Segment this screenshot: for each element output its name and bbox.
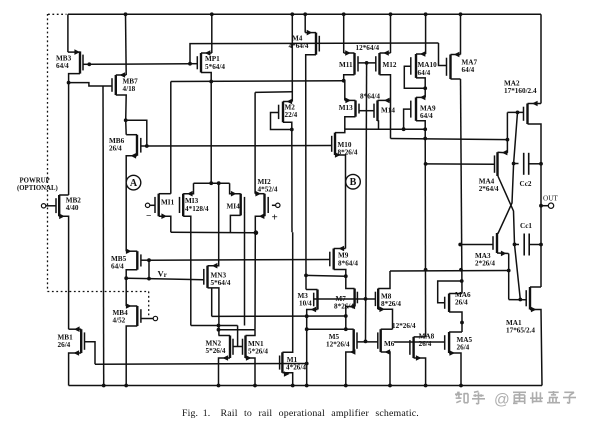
wire M13 source lead <box>345 117 356 129</box>
wire MA7 source lead <box>451 78 461 80</box>
wire M13/M14 gate wire <box>359 110 374 112</box>
junction bus316 end <box>344 314 348 318</box>
transistor MI3 <box>180 194 184 217</box>
junction MN-gates tie <box>217 324 221 328</box>
arrow MI2 drain <box>255 191 261 197</box>
arrow MA9 drain <box>420 95 426 101</box>
transistor MN3 <box>204 266 208 288</box>
wire MB3 drain riser <box>67 14 69 52</box>
junction MB3 source node <box>67 81 71 85</box>
wire M12 drain lead <box>380 52 391 54</box>
junction S2 Cc1 <box>513 243 517 247</box>
svg-text:64/4: 64/4 <box>111 263 124 271</box>
arrow MB1 drain <box>74 326 80 332</box>
arrow MI1 source <box>161 213 167 219</box>
junction bus364 end <box>305 362 309 366</box>
wire M6 drain lead <box>381 328 393 330</box>
wire M7 source lead <box>346 307 355 330</box>
junction bus129 MA9-gate <box>402 127 406 131</box>
wire bus y325 <box>191 325 238 327</box>
svg-text:4/52: 4/52 <box>113 317 126 325</box>
wire MB2 source lead <box>59 216 68 329</box>
terminal MB2 gate (POWRUP) <box>41 204 45 208</box>
wire M4 drain riser <box>304 16 306 33</box>
svg-text:M9: M9 <box>338 252 349 260</box>
wire MB1 source lead <box>69 353 82 386</box>
wire MI4 source lead <box>230 215 240 232</box>
wire MA2 gate lead <box>507 111 523 113</box>
arrow MN1 source <box>246 355 252 361</box>
transistor MA7 <box>447 55 451 80</box>
svg-text:@: @ <box>494 392 510 409</box>
wire tail rail <box>171 231 256 233</box>
junction OUT <box>539 204 543 208</box>
wire MA4 gate lead: none (bus164) <box>494 163 496 165</box>
transistor MB3 <box>80 51 83 73</box>
svg-text:4/40: 4/40 <box>66 204 79 212</box>
wire MN3 source stub to bus316 <box>211 288 213 317</box>
wire MI2-MN1 link <box>254 232 256 329</box>
arrow M3 source <box>311 307 317 313</box>
transistor MB1 <box>81 329 84 353</box>
wire top supply rail <box>68 13 541 15</box>
junction M3/M5 drain tie <box>305 327 309 331</box>
svg-text:8*64/4: 8*64/4 <box>360 93 380 101</box>
transistor MB7 <box>112 75 116 95</box>
wire POWRUP dashed vertical <box>47 14 49 292</box>
svg-text:M12: M12 <box>383 61 397 69</box>
wire M9 source lead <box>334 270 346 277</box>
wire bus y329 MN1-drain <box>219 329 256 331</box>
junction rail MA7 <box>459 12 463 16</box>
arrow M6 source <box>385 349 391 355</box>
wire MI2 drain lead <box>255 193 264 195</box>
junction MA6-MA5 tie <box>460 321 464 325</box>
junction MA10 gate tie <box>423 86 427 90</box>
transistor MI4 <box>241 194 245 216</box>
arrow MA8 source <box>416 355 422 361</box>
wire MB6 drain to channel <box>125 120 128 134</box>
arrow MA5 source <box>449 350 455 356</box>
junction S1 Cc2 <box>512 162 516 166</box>
junction M11 source node <box>342 79 346 83</box>
junction bus270 MA6 <box>459 268 463 272</box>
wire MA spine x425 <box>424 129 426 337</box>
wire M12 drain riser <box>390 14 392 53</box>
junction M5 drain node <box>344 327 348 331</box>
wire bus y164 MA4 gate <box>426 163 495 165</box>
wire MP1 drain riser <box>211 14 213 53</box>
wire MA8 drain lead <box>414 336 426 338</box>
wire Cc1 right <box>529 244 541 246</box>
wire MA3 gate lead <box>460 244 493 246</box>
wire MI2 gate lead <box>272 204 276 206</box>
svg-text:12*26/4: 12*26/4 <box>392 322 416 330</box>
svg-text:17*160/2.4: 17*160/2.4 <box>504 87 537 95</box>
svg-text:M13: M13 <box>339 104 353 112</box>
wire MA1 source lead <box>530 310 542 386</box>
arrow M14 drain <box>384 98 390 104</box>
wire MB4 drain lead <box>126 305 137 307</box>
junction M11/M12 gate node <box>365 61 369 65</box>
junction tail MI2 <box>254 230 259 235</box>
wire MB1 drain lead <box>69 328 82 330</box>
junction rail M2 <box>290 12 294 16</box>
wire M4-gate bus with left drop <box>190 43 439 64</box>
wire MB4 gate lead <box>141 318 153 320</box>
wire OUT stub <box>541 205 549 207</box>
svg-text:+: + <box>272 212 278 224</box>
wire Vr node to MB4 drain <box>125 278 127 306</box>
wire MN2/MN1 gate wire <box>233 346 243 348</box>
wire MA1 drain lead <box>530 286 541 288</box>
arrow MB3 source (top) <box>74 49 80 55</box>
arrow MA2 drain <box>532 101 538 107</box>
wire MB5 gate to Vr wire <box>148 260 150 278</box>
wire MI1 gate lead <box>150 204 155 206</box>
junction top rail x125 <box>124 12 128 16</box>
svg-text:5*26/4: 5*26/4 <box>248 348 268 356</box>
wire MA9 gate drop <box>404 109 411 129</box>
wire gate bus y342 M5-M6 <box>357 341 378 343</box>
transistor M13 <box>356 100 360 116</box>
wire MP1 to pair bus <box>210 82 212 184</box>
transistor M3 <box>314 290 318 310</box>
svg-text:5*64/4: 5*64/4 <box>205 63 225 71</box>
wire M4 source lead <box>306 55 316 290</box>
wire Cc2 right <box>529 163 541 165</box>
junction pair bus MP1 <box>209 181 213 185</box>
wire MA10 source lead <box>416 78 425 98</box>
svg-text:4*26/4: 4*26/4 <box>286 364 306 372</box>
wire MA2 drain lead <box>528 103 542 105</box>
wire mirror gate spine x365 <box>366 63 367 342</box>
wire rail drop right <box>540 14 542 103</box>
wire MI1 source lead <box>159 216 171 232</box>
svg-text:POWRUP: POWRUP <box>20 177 50 184</box>
svg-text:8*64/4: 8*64/4 <box>338 260 358 268</box>
svg-text:MI1: MI1 <box>161 199 175 207</box>
wire MN2 drain lead <box>219 335 231 337</box>
wire MA7 gate feed <box>439 43 447 66</box>
arrow MB1 source <box>74 350 80 356</box>
wire MA3 source lead <box>497 252 509 255</box>
wire M11 drain riser <box>343 14 345 53</box>
wire MA5 source lead <box>449 353 461 386</box>
svg-text:A: A <box>130 178 138 189</box>
svg-text:Rail to rail operational ampli: Rail to rail operational amplifier schem… <box>221 408 419 419</box>
wire M12 source riser <box>380 75 391 139</box>
wire MI2 drain riser <box>254 92 256 193</box>
junction spine365 at M5/M6 gates <box>364 340 368 344</box>
wire MA8 source lead <box>414 358 426 386</box>
junction spine425 bus138 <box>423 137 427 141</box>
junction bus270 V3 <box>507 269 511 273</box>
wire M3 drain lead <box>306 289 318 291</box>
svg-text:4*52/4: 4*52/4 <box>258 186 278 194</box>
junction Vr node <box>124 276 128 280</box>
watermark zhihu <box>455 391 576 404</box>
wire MB3 drain lead <box>68 51 80 53</box>
wire M10-gate bus y145 <box>147 145 332 148</box>
transistor M2 <box>279 102 283 123</box>
capacitor Cc1 <box>524 234 529 256</box>
arrow M8 source <box>379 307 385 313</box>
junction rail MA5 <box>459 384 463 388</box>
junction MB5 gate node <box>147 258 151 262</box>
wire gate bus y364 (MB1/M1) <box>95 363 307 366</box>
wire MI2 drain jog to M2 riser <box>255 91 292 94</box>
transistor MB6 <box>137 135 141 156</box>
wire rail to MB7 drain <box>125 14 128 75</box>
node B <box>346 174 361 189</box>
wire M1 drain lead <box>282 232 292 352</box>
junction out Cc1 <box>539 243 543 247</box>
arrow MI2 source <box>259 213 265 219</box>
transistor M10 <box>332 133 335 155</box>
transistor M14 <box>374 100 378 121</box>
wire MA9 source lead <box>416 121 425 130</box>
arrow M1 source <box>284 371 290 377</box>
svg-text:26/4: 26/4 <box>419 340 432 348</box>
svg-text:Cc1: Cc1 <box>520 222 532 230</box>
transistor MA6 <box>445 294 449 313</box>
svg-text:M14: M14 <box>381 107 395 115</box>
wire M2 drain riser <box>291 16 293 102</box>
wire MB6 source lead <box>126 156 137 251</box>
transistor MB2 <box>56 195 59 216</box>
arrow M10 source <box>335 152 341 158</box>
transistor M1 <box>280 352 283 373</box>
transistor MB5 <box>137 251 141 270</box>
wire M2 source lead <box>283 122 292 129</box>
junction S2 MA1-gate <box>518 298 522 302</box>
wire M6 source lead <box>381 352 390 386</box>
wire MP1 gate lead <box>190 63 197 65</box>
wire MB4 source lead <box>126 326 137 386</box>
wire MA9 drain lead <box>416 96 425 98</box>
wire bus y129 cascode <box>345 128 425 130</box>
wire POWRUP dashed drop to MB4 gate <box>148 292 150 316</box>
junction spine425 bus164 <box>424 162 428 166</box>
wire MA5 drain lead <box>449 331 462 333</box>
svg-text:64/4: 64/4 <box>420 112 433 120</box>
transistor MI1 <box>155 194 159 217</box>
junction MB3 gate node <box>87 62 91 66</box>
transistor MA10 <box>411 54 416 78</box>
wire bus y81 MI1-M11 <box>171 80 344 83</box>
transistor MA2 <box>524 104 528 125</box>
transistor MA8 <box>410 337 414 358</box>
wire M9 drain lead <box>334 248 346 250</box>
arrow MA1 source <box>531 307 537 313</box>
wire Vr bus <box>126 278 204 279</box>
wire MP1 source lead <box>201 73 211 82</box>
terminal minus input <box>145 203 149 207</box>
arrow MB7 drain <box>120 72 126 78</box>
junction MA6 gate tie <box>460 279 464 283</box>
wire bottom supply rail <box>69 385 542 387</box>
wire M3 source lead <box>307 310 318 386</box>
transistor M11 <box>355 53 359 75</box>
junction spine126 at bottom rail <box>124 384 128 388</box>
transistor MA1 <box>526 287 530 310</box>
wire M8 source lead <box>378 309 392 329</box>
wire M14 source lead <box>378 121 379 129</box>
wire MI3 source descent <box>183 216 191 325</box>
wire MI1 drain lead <box>159 193 171 195</box>
svg-text:64/4: 64/4 <box>56 62 69 70</box>
junction rail M4 <box>303 12 307 16</box>
arrow M13 drain <box>345 98 351 104</box>
svg-text:M11: M11 <box>339 61 353 69</box>
arrow M2 drain <box>287 99 293 105</box>
wire MA6 source lead <box>449 312 462 332</box>
wire MB5 drain lead <box>126 250 137 252</box>
wire POWRUP dashed horizontal <box>48 291 150 293</box>
arrow MI4 drain <box>231 191 237 197</box>
junction rail MP1 <box>210 12 214 16</box>
wire MB3-source to MB2 drain <box>68 83 70 195</box>
svg-text:Fig. 1.: Fig. 1. <box>182 408 210 419</box>
wire M1 source lead <box>282 373 292 386</box>
wire bias bus MB3-gate to MP1-gate <box>89 63 190 66</box>
wire MB6 drain lead <box>126 134 137 136</box>
junction rail MN1 <box>253 384 257 388</box>
wire bus y138 to MA2 gate <box>391 139 508 140</box>
arrow MA3 source <box>501 251 507 257</box>
wire MB5 gate lead <box>141 259 149 261</box>
junction rail M6 <box>388 384 392 388</box>
wire MN3 drain lead <box>208 183 219 266</box>
wire MB5 source lead <box>126 270 137 279</box>
junction MA2 gate slant <box>516 111 520 115</box>
wire MN1 source lead <box>246 358 256 386</box>
svg-text:2*26/4: 2*26/4 <box>475 260 495 268</box>
arrow MB2 source <box>59 214 65 220</box>
arrow M11 drain <box>345 50 351 56</box>
transistor MA4 <box>495 152 498 176</box>
wire MB7 drain lead <box>116 74 126 76</box>
junction spine461 MA3-gate <box>458 243 462 247</box>
arrow MB6 source <box>131 153 137 159</box>
svg-text:64/4: 64/4 <box>462 66 475 74</box>
svg-text:M6: M6 <box>384 340 395 348</box>
wire pair bus y183 <box>194 182 230 184</box>
wire M4 drain lead <box>305 32 316 34</box>
wire MB7 source lead <box>116 95 126 120</box>
wire MP1 drain lead <box>201 52 212 54</box>
wire MI3 drain lead <box>183 183 193 194</box>
wire MA4 drain lead <box>498 151 508 154</box>
arrow M4 drain <box>307 30 313 36</box>
wire MA3 drain lead <box>496 232 499 235</box>
junction M4-source/M9 node <box>304 274 308 278</box>
wire MB3 gate lead <box>83 63 89 65</box>
svg-text:(OPTIONAL): (OPTIONAL) <box>17 185 58 192</box>
terminal MB4 gate <box>153 316 157 320</box>
wire MA3-source drop V3 <box>508 254 510 300</box>
wire MB7 gate spine x103 <box>102 86 105 386</box>
wire MA10 gate loop <box>404 66 425 88</box>
svg-text:26/4: 26/4 <box>455 299 468 307</box>
svg-text:B: B <box>350 177 357 188</box>
wire M2 drain lead <box>283 101 292 103</box>
arrow MA7 drain <box>454 52 460 58</box>
junction rail M3 <box>305 384 309 388</box>
wire Cc1 left <box>515 243 520 245</box>
arrow MB4 drain <box>126 303 132 309</box>
wire MB6 gate loop <box>126 120 147 146</box>
terminal plus input <box>276 203 280 207</box>
arrow MI3 drain <box>187 191 193 197</box>
terminal OUT <box>548 203 553 208</box>
arrow MN3 drain <box>212 263 218 269</box>
wire Cc2 left <box>514 163 519 165</box>
svg-text:8*26/4: 8*26/4 <box>381 300 401 308</box>
junction drop bus138 <box>506 138 510 142</box>
wire M5 drain lead <box>346 328 354 330</box>
wire M11 source lead <box>344 75 355 81</box>
junction bus270 MA-spine <box>424 268 428 272</box>
transistor M7 <box>355 289 358 307</box>
transistor M6 <box>378 329 381 352</box>
wire M11-M12 gate wire <box>358 62 376 64</box>
arrow M5 source <box>350 349 356 355</box>
wire MA2 gate drop <box>506 112 508 152</box>
wire MB1 gate hook <box>85 342 96 365</box>
svg-text:−: − <box>146 212 151 222</box>
junction rail M5 <box>344 384 348 388</box>
wire MA6 drain lead <box>449 293 462 295</box>
junction MP1 gate node <box>188 62 192 66</box>
arrow MB5 drain <box>126 248 132 254</box>
wire M5 source lead <box>346 352 354 386</box>
wire MI4 gate descent <box>244 212 246 326</box>
svg-text:8*26/4: 8*26/4 <box>334 303 354 311</box>
arrow M12 drain <box>383 50 389 56</box>
wire MA10 drain riser <box>425 14 427 54</box>
junction MN2 drain node <box>217 328 221 332</box>
transistor MN2 <box>230 336 233 359</box>
svg-text:MP1: MP1 <box>205 55 220 63</box>
wire MN gates riser <box>237 326 239 347</box>
wire M13 drain riser <box>344 81 346 101</box>
wire MN3 source lead <box>208 288 219 336</box>
wire bus y276 <box>306 274 346 277</box>
junction rail MA8 <box>424 384 428 388</box>
svg-text:MI4: MI4 <box>227 203 241 211</box>
transistor M9 <box>330 249 334 270</box>
svg-text:Cc2: Cc2 <box>520 180 532 188</box>
wire MA7-MA6 spine x461 <box>461 79 463 294</box>
junction out Cc2 <box>539 162 543 166</box>
wire slant S1 MA2-gate <box>498 112 518 233</box>
svg-text:5*26/4: 5*26/4 <box>206 347 226 355</box>
svg-text:26/4: 26/4 <box>457 344 470 352</box>
junction spine103 at bottom rail <box>102 384 106 388</box>
transistor MA9 <box>411 97 416 120</box>
transistor MN1 <box>243 336 246 359</box>
transistor M12 <box>376 53 380 75</box>
transistor MI2 <box>265 194 269 217</box>
svg-text:OUT: OUT <box>543 195 558 203</box>
wire M10 drain lead <box>335 129 345 133</box>
wire gate bus y299 <box>314 298 376 300</box>
wire MI2 source lead <box>255 216 264 232</box>
transistor MA5 <box>445 332 449 353</box>
svg-text:4*64/4: 4*64/4 <box>289 42 309 50</box>
